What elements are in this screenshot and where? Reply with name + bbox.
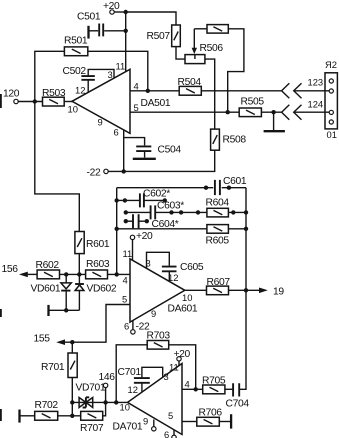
svg-text:11: 11 — [116, 60, 126, 71]
svg-text:9: 9 — [151, 308, 156, 319]
node C604 right end — [145, 219, 149, 223]
svg-text:R604: R604 — [206, 198, 230, 209]
terminal +20 DA601 — [130, 231, 153, 260]
node VD602/R601 top — [77, 272, 81, 276]
svg-text:5: 5 — [134, 102, 139, 113]
svg-text:11: 11 — [169, 362, 179, 373]
node at +20 rail — [124, 10, 128, 14]
node rail/pin4 — [115, 272, 119, 276]
svg-text:DA601: DA601 — [168, 304, 198, 315]
chevron pair line 123 — [282, 83, 302, 98]
node ground on 124 line — [271, 110, 275, 114]
node 146/R707 — [103, 400, 107, 404]
resistor R507 — [147, 25, 181, 47]
wire R504 to chevron 123 — [201, 90, 281, 92]
wire pin4 DA501 to R504 — [130, 90, 179, 92]
node pin4/R703/R705 — [194, 387, 198, 391]
wire R707 right up — [103, 402, 106, 415]
svg-text:155: 155 — [34, 334, 51, 345]
node R702/R707 — [70, 414, 74, 418]
node C603 lead a — [169, 210, 173, 214]
node R604 rail — [244, 210, 248, 214]
svg-text:3: 3 — [164, 371, 169, 382]
node 155/R701 — [70, 340, 74, 344]
svg-text:4: 4 — [123, 275, 128, 286]
resistor R702 — [35, 400, 59, 420]
wire R607 to arrow 19 — [229, 289, 261, 291]
wire diode ground rail — [50, 309, 80, 311]
potentiometer R506 — [185, 43, 223, 64]
wire 120 to R503 — [18, 101, 42, 103]
resistor R605 — [206, 225, 230, 247]
diode VD602 — [75, 274, 117, 310]
resistor R705 — [202, 376, 226, 394]
resistor R601 — [75, 232, 110, 254]
node C602 right end — [163, 198, 167, 202]
resistor R707 — [80, 411, 104, 434]
node R605 rail — [244, 227, 248, 231]
svg-text:C603*: C603* — [157, 201, 184, 212]
wire VD701 row to R702 row — [71, 402, 73, 415]
svg-text:VD701: VD701 — [76, 383, 106, 394]
wire pin5 DA601 to 155 — [65, 305, 131, 343]
arrow 155 — [34, 334, 66, 346]
wire R702 to R707 — [58, 415, 81, 417]
wire R601 bottom — [78, 254, 80, 275]
node rail bottom corner — [115, 227, 119, 231]
svg-text:146: 146 — [99, 372, 116, 383]
svg-text:10: 10 — [120, 402, 130, 413]
wire ground to R702 — [21, 415, 35, 417]
capacitor C504 — [136, 145, 181, 158]
resistor R501 — [64, 36, 88, 56]
svg-text:R507: R507 — [147, 31, 171, 42]
svg-text:R701: R701 — [41, 362, 65, 373]
svg-text:VD601: VD601 — [31, 284, 61, 295]
resistor R604 — [206, 198, 230, 217]
node C602 rail — [115, 198, 119, 202]
svg-text:6: 6 — [114, 127, 119, 138]
svg-text:19: 19 — [273, 287, 284, 298]
terminal 120 — [3, 89, 20, 104]
rail C-network bottom — [117, 228, 207, 230]
wire pin6 DA501 — [123, 130, 125, 172]
wire R703 left leg — [116, 345, 147, 403]
node VD601 top — [64, 272, 68, 276]
resistor (unlabeled) top right — [207, 25, 228, 33]
wire R503 to pin10 — [64, 101, 72, 103]
connector Я2 — [325, 59, 337, 140]
wire resistor to pin5 node — [228, 29, 244, 112]
wire R705 to C704 — [225, 388, 233, 390]
wire R508 bottom to -22 rail — [108, 150, 215, 171]
svg-text:4: 4 — [185, 379, 190, 390]
diode VD601 — [31, 274, 72, 310]
wire chevron to connector 124 — [294, 111, 330, 113]
resistor R505 — [239, 97, 264, 117]
svg-text:5: 5 — [122, 294, 127, 305]
wire pin6 to C504 — [124, 138, 145, 146]
resistor R603 — [86, 259, 110, 279]
node C603 left end — [124, 210, 128, 214]
svg-text:DA701: DA701 — [113, 422, 143, 433]
wire R506 right to R508 — [205, 59, 215, 129]
op-amp DA601 — [130, 259, 198, 322]
wire wiper to resistor — [194, 28, 207, 30]
svg-text:10: 10 — [68, 104, 78, 115]
svg-text:12: 12 — [75, 85, 85, 96]
svg-text:VD602: VD602 — [87, 284, 117, 295]
svg-text:R508: R508 — [223, 135, 247, 146]
node R604 right lead — [231, 210, 235, 214]
node input — [33, 99, 37, 103]
svg-text:R605: R605 — [206, 236, 230, 247]
svg-text:C704: C704 — [226, 399, 250, 410]
capacitor C605 — [162, 262, 204, 282]
wiper arrow R506 — [192, 29, 197, 54]
rail C-network right — [245, 188, 247, 291]
terminal +20 (top supply) — [103, 1, 120, 14]
wire R507 bottom to R506 — [176, 47, 185, 60]
svg-text:+20: +20 — [136, 231, 153, 242]
arrow 156 — [2, 264, 38, 277]
svg-text:3: 3 — [108, 69, 113, 80]
wire R602 to R603 — [60, 273, 86, 275]
node R703 bottom — [114, 400, 118, 404]
arrow 19 — [259, 287, 284, 298]
wire R604 right — [228, 211, 246, 213]
wire R706 to ground — [219, 421, 230, 423]
resistor R503 — [42, 88, 66, 106]
wire R501 right to pin4 node — [88, 51, 148, 91]
paper edge mark middle — [0, 309, 2, 317]
svg-text:12: 12 — [128, 384, 138, 395]
pin 9 terminal DA701 — [152, 420, 156, 431]
wire R605 right — [228, 228, 246, 230]
terminal 146 — [99, 372, 116, 402]
paper edge mark top — [0, 94, 2, 108]
svg-text:R506: R506 — [200, 43, 224, 54]
svg-text:C504: C504 — [158, 145, 182, 156]
node R701 bottom — [70, 400, 74, 404]
wire +20 rail to R507 — [126, 12, 176, 25]
resistor R602 — [36, 260, 60, 279]
capacitor C603* — [126, 201, 207, 220]
resistor R706 — [197, 408, 223, 427]
wire chevron to connector 123 — [294, 90, 330, 92]
svg-text:R501: R501 — [64, 36, 88, 47]
ground diodes — [47, 305, 49, 316]
svg-text:01: 01 — [327, 129, 337, 140]
node C602 inner lead — [123, 198, 127, 202]
node pin6 on -22 rail — [122, 169, 126, 173]
svg-text:4: 4 — [134, 81, 139, 92]
wire +20 to node — [114, 11, 126, 13]
resistor R701 — [41, 342, 77, 402]
node R604 left lead — [196, 210, 200, 214]
capacitor C701 — [118, 367, 163, 392]
svg-text:+20: +20 — [174, 349, 191, 360]
svg-text:156: 156 — [2, 264, 19, 275]
op-amp DA501 — [72, 69, 171, 133]
node VD601 bottom — [64, 308, 68, 312]
svg-text:DA501: DA501 — [141, 98, 171, 109]
capacitor C601 — [213, 176, 247, 195]
svg-text:9: 9 — [98, 117, 103, 128]
node C603 lead b — [179, 210, 183, 214]
resistor R504 — [178, 77, 202, 95]
ground R706 — [230, 414, 232, 428]
svg-text:5: 5 — [168, 410, 173, 421]
op-amp DA701 — [113, 364, 183, 435]
wire pin11 DA501 — [125, 12, 127, 72]
svg-text:C605: C605 — [180, 262, 204, 273]
wire input node down to R601 — [35, 102, 80, 232]
svg-text:-22: -22 — [87, 168, 101, 179]
wire pin3 loop DA601 — [147, 252, 170, 268]
resistor R607 — [207, 277, 231, 295]
ground C504 — [133, 158, 156, 160]
rail C-network left — [116, 188, 118, 275]
wire R505 — [261, 111, 281, 113]
node C501 right — [124, 29, 128, 33]
svg-text:R702: R702 — [35, 400, 59, 411]
resistor R703 — [147, 331, 171, 350]
svg-text:6: 6 — [164, 429, 169, 438]
wire pin5 DA501 — [130, 111, 239, 113]
node C601 right lead — [227, 186, 231, 190]
node pin5/R505 — [226, 110, 230, 114]
svg-text:C501: C501 — [77, 12, 101, 23]
svg-text:120: 120 — [3, 89, 20, 100]
svg-text:11: 11 — [123, 248, 133, 259]
capacitor C602* — [117, 189, 171, 208]
svg-text:C601: C601 — [223, 176, 247, 187]
capacitor C501 — [77, 12, 126, 39]
wire R501 left to input node — [35, 51, 65, 101]
ground at 124 line — [264, 112, 285, 131]
terminal -22 — [87, 168, 109, 179]
paper edge mark bottom — [0, 409, 2, 421]
capacitor C704 — [226, 383, 250, 409]
svg-text:R601: R601 — [86, 239, 110, 250]
svg-text:123: 123 — [308, 77, 324, 88]
svg-text:Я2: Я2 — [325, 59, 337, 70]
wire R603 to pin4 DA601 — [108, 273, 131, 275]
svg-text:124: 124 — [308, 99, 324, 110]
terminal +20 DA701 — [174, 349, 191, 366]
svg-text:9: 9 — [143, 416, 148, 427]
wire VD701 row — [72, 401, 127, 403]
rail C-network top — [117, 187, 246, 189]
diode VD701 (bidirectional) — [76, 383, 106, 408]
svg-text:C602*: C602* — [143, 189, 170, 200]
wire pin4 DA701 — [182, 388, 203, 390]
ground R702 — [18, 410, 20, 423]
svg-text:R707: R707 — [80, 423, 104, 434]
wire pin5 DA701 — [182, 421, 197, 423]
svg-text:10: 10 — [182, 292, 192, 303]
svg-text:6: 6 — [124, 321, 129, 332]
terminal -22 DA601 pin6 — [131, 320, 150, 334]
svg-text:R505: R505 — [241, 97, 265, 108]
wire R703 right leg — [169, 345, 196, 390]
svg-text:C701: C701 — [118, 367, 142, 378]
svg-text:R603: R603 — [86, 259, 110, 270]
node 19 — [244, 288, 248, 292]
chevron pair line 124 — [282, 105, 302, 120]
rail right down to C704 — [240, 290, 246, 389]
node C601 left lead — [204, 186, 208, 190]
capacitor C502 — [63, 66, 115, 92]
pin 6 terminal DA701 — [172, 430, 176, 438]
wire pin10 DA601 to R607 — [185, 289, 207, 291]
node C604 left end — [124, 219, 128, 223]
node feedback on pin4 wire — [146, 89, 150, 93]
capacitor C604* — [126, 214, 179, 230]
resistor R508 — [211, 129, 247, 150]
